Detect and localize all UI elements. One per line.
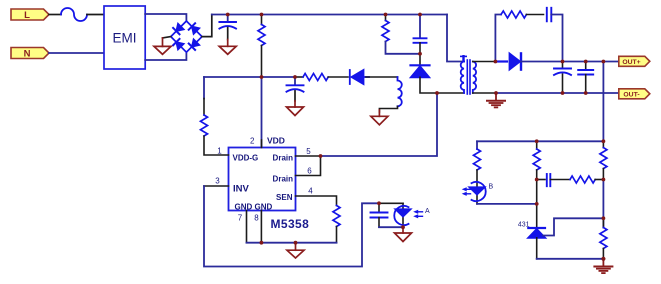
- resistor R2 VDD supply: [295, 74, 348, 81]
- node comp right: [602, 178, 606, 182]
- resistor R7 opto B: [474, 141, 481, 182]
- diode D3 output: [495, 53, 521, 69]
- pin 5 stub: [296, 155, 321, 157]
- wire gnd rail: [247, 242, 337, 244]
- wire VDD vertical to pin2: [261, 77, 263, 148]
- wire feedback top rail: [477, 140, 603, 142]
- node drain pins: [319, 154, 323, 158]
- resistor R1 startup: [258, 16, 265, 77]
- port flag N: [11, 48, 49, 60]
- svg-text:431: 431: [518, 222, 530, 229]
- wire INV node to opto A: [379, 202, 403, 204]
- capacitor C2 VDD: [287, 77, 304, 92]
- bridge rectifier B1: [171, 21, 202, 52]
- wire N to EMI: [49, 52, 104, 54]
- node gnd symbol: [294, 241, 298, 245]
- wire VDD rail: [204, 76, 295, 78]
- svg-text:N: N: [24, 49, 31, 60]
- wire aux winding to ground: [379, 106, 397, 112]
- svg-text:OUT+: OUT+: [622, 59, 640, 66]
- capacitor C7 INV: [371, 203, 388, 227]
- wire clamp diode to primary bottom: [420, 77, 437, 93]
- capacitor C5 output electrolytic: [554, 62, 571, 94]
- resistor R9 comp: [570, 176, 603, 183]
- ground (bulk cap): [219, 40, 236, 55]
- wire bridge right to DC rail: [202, 15, 212, 37]
- svg-text:VDD-G: VDD-G: [233, 153, 259, 162]
- EMI filter block U2: [104, 6, 145, 69]
- wire 431 anode: [536, 238, 538, 259]
- wire cap to ground: [227, 28, 229, 40]
- svg-text:OUT-: OUT-: [623, 92, 639, 99]
- wire OUT- rail: [496, 92, 619, 94]
- pin 2 stub: [261, 140, 263, 148]
- wire drain vertical: [321, 93, 438, 156]
- ground (M5358): [287, 243, 304, 258]
- node comp cap: [535, 178, 539, 182]
- wire primary bottom: [437, 92, 464, 94]
- wire opto B to 431 cathode: [477, 203, 537, 205]
- wire L to fuse: [49, 14, 61, 16]
- diode D2 clamp (cathode up): [411, 54, 430, 78]
- wire output rail: [521, 61, 619, 63]
- node INV cap: [377, 201, 381, 205]
- wire cap bottom to opto A: [379, 226, 403, 228]
- resistor R11 divider bottom: [600, 218, 607, 258]
- wire fuse to EMI: [87, 14, 104, 16]
- svg-text:VDD: VDD: [267, 136, 285, 146]
- port flag OUT-: [619, 89, 650, 99]
- node clamp: [418, 52, 422, 56]
- node opto B return: [535, 202, 539, 206]
- pin 3 INV wire: [204, 185, 229, 187]
- node output cap 2: [584, 60, 588, 64]
- ground (VDD cap): [287, 101, 304, 116]
- capacitor C4 snubber: [547, 8, 552, 21]
- pins 7 8 gnd wires: [246, 211, 248, 243]
- node bulk cap / rail: [226, 13, 230, 17]
- node drain / primary: [435, 91, 439, 95]
- port flag L: [11, 9, 49, 21]
- node opto A bottom: [401, 225, 405, 229]
- fuse F1: [61, 8, 87, 21]
- wire EMI to bridge top: [145, 14, 186, 21]
- svg-text:EMI: EMI: [112, 30, 136, 45]
- wire EMI to bridge bottom: [145, 52, 186, 60]
- svg-text:3: 3: [215, 176, 220, 185]
- node feedback rail mid: [535, 139, 539, 143]
- node secondary bottom / earth: [494, 91, 498, 95]
- wire snubber to diode cathode: [551, 15, 562, 62]
- svg-text:8: 8: [254, 213, 259, 222]
- resistor R8 divider bias: [533, 141, 540, 179]
- svg-text:SEN: SEN: [276, 193, 293, 202]
- capacitor C8 comp: [537, 174, 570, 186]
- wire anode to divider bottom: [537, 258, 604, 260]
- node output cap 1: [561, 60, 565, 64]
- optocoupler U3B LED: [462, 182, 486, 204]
- node divider bottom: [601, 257, 605, 261]
- optocoupler U3A phototransistor: [394, 203, 422, 227]
- svg-text:1: 1: [217, 146, 222, 155]
- node clamp resistor / rail: [384, 13, 388, 17]
- svg-text:L: L: [24, 10, 30, 21]
- svg-text:M5358: M5358: [271, 217, 310, 231]
- ground (aux winding): [371, 110, 388, 125]
- node output cap 2 bottom: [584, 91, 588, 95]
- capacitor C6 output ceramic: [578, 62, 593, 94]
- wire secondary top: [473, 61, 496, 63]
- capacitor C1 bulk: [219, 15, 236, 29]
- diode D1 VDD (cathode left): [350, 70, 369, 84]
- svg-text:GND GND: GND GND: [235, 202, 273, 211]
- inductor L1 aux winding: [398, 77, 402, 106]
- node output cap 1 bottom: [561, 91, 565, 95]
- node clamp cap / rail: [418, 13, 422, 17]
- node VDD cap: [293, 75, 297, 79]
- wire secondary bottom: [473, 92, 496, 94]
- earth ground (divider): [594, 259, 612, 273]
- svg-text:4: 4: [308, 186, 313, 195]
- svg-text:Drain: Drain: [273, 153, 294, 162]
- capacitor C3 clamp: [414, 15, 427, 43]
- node VDD rail left: [260, 75, 264, 79]
- wire bridge left to ground: [163, 37, 171, 38]
- node REF junction: [602, 216, 606, 220]
- wire clamp cap to node: [419, 43, 421, 54]
- transformer T1: [461, 56, 476, 94]
- shunt regulator 431: [528, 228, 545, 238]
- node startup resistor / rail: [260, 13, 264, 17]
- svg-text:Drain: Drain: [273, 174, 294, 183]
- svg-text:A: A: [425, 208, 430, 215]
- resistor R5 pin1: [201, 77, 229, 155]
- svg-text:5: 5: [306, 147, 311, 156]
- resistor R6 SEN: [333, 206, 340, 243]
- svg-text:B: B: [489, 184, 494, 191]
- resistor R10 divider top: [600, 141, 607, 179]
- pin 4 SEN wire: [296, 196, 337, 206]
- earth ground (secondary): [487, 93, 505, 107]
- node feedback rail right: [602, 139, 606, 143]
- ground (bridge AC): [154, 38, 171, 54]
- node gnd pin8: [260, 241, 264, 245]
- svg-text:6: 6: [307, 166, 312, 175]
- wire feedback riser from OUT+: [602, 62, 604, 142]
- svg-text:2: 2: [250, 137, 255, 146]
- wire diode to aux winding: [366, 76, 398, 78]
- wire VDD cap to ground: [294, 91, 296, 101]
- resistor R3 clamp: [382, 16, 420, 54]
- node secondary top / snubber: [494, 60, 498, 64]
- pin 6 wire: [296, 156, 321, 176]
- node OUT+ feedback tap: [602, 60, 606, 64]
- wire HV rail: [212, 14, 447, 16]
- svg-text:INV: INV: [233, 183, 250, 194]
- port flag OUT+: [619, 56, 650, 66]
- op-amp U1 M5358 body: [215, 136, 313, 232]
- wire 431 cathode column: [536, 180, 538, 228]
- wire snubber riser: [495, 15, 501, 62]
- ground (opto A): [395, 227, 412, 241]
- svg-text:7: 7: [238, 213, 243, 222]
- wire 431 ref: [543, 218, 603, 235]
- wire INV loop: [204, 186, 379, 267]
- wire divider mid: [602, 180, 604, 228]
- wire rail corner to primary top: [447, 15, 464, 62]
- resistor R4 snubber: [501, 11, 544, 18]
